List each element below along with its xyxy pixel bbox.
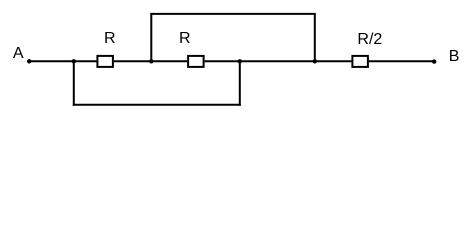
resistor R1 <box>97 56 113 67</box>
wire top branch horizontal <box>150 13 315 15</box>
wire top branch right vertical <box>314 14 316 61</box>
wire resistor R1 to junction 2 <box>114 60 151 62</box>
wire bottom branch right vertical <box>239 61 241 106</box>
wire resistor R3 to node B <box>369 60 434 62</box>
wire junction 3 to junction 4 <box>240 60 315 62</box>
node B terminal dot <box>432 59 436 63</box>
svg-text:R/2: R/2 <box>357 31 382 48</box>
svg-text:A: A <box>13 45 24 62</box>
junction node 2 <box>149 59 153 63</box>
wire bottom branch left vertical <box>73 61 75 106</box>
resistor R2 <box>188 56 204 67</box>
svg-text:R: R <box>179 30 191 47</box>
wire junction 1 to resistor R1 <box>74 60 97 62</box>
wire bottom branch horizontal <box>73 104 241 106</box>
junction node 3 <box>238 59 242 63</box>
junction node 1 <box>72 59 76 63</box>
wire junction 2 to resistor R2 <box>151 60 187 62</box>
wire top branch left vertical <box>150 14 152 61</box>
wire resistor R2 to junction 3 <box>205 60 240 62</box>
node A terminal dot <box>27 59 31 63</box>
junction node 4 <box>313 59 317 63</box>
wire junction 4 to resistor R3 <box>315 60 352 62</box>
wire A to junction 1 <box>29 60 74 62</box>
resistor R3 <box>352 56 368 67</box>
svg-text:B: B <box>449 48 460 65</box>
svg-text:R: R <box>104 30 116 47</box>
